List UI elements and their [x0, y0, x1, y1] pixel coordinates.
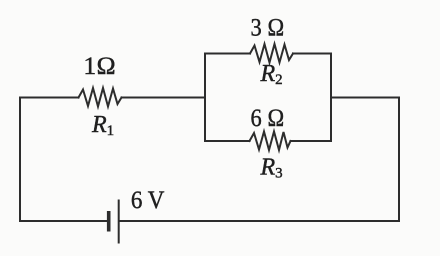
- resistor R3: [250, 132, 291, 151]
- wire top branch left (to R2): [205, 53, 250, 55]
- wire parallel block left vertical: [204, 54, 206, 142]
- resistor R2: [250, 44, 293, 63]
- wire bottom branch left (to R3): [205, 140, 250, 142]
- svg-text:3 Ω: 3 Ω: [251, 15, 285, 42]
- svg-text:R1: R1: [91, 112, 114, 139]
- svg-text:R3: R3: [260, 155, 283, 182]
- battery V1 negative plate (short thick): [107, 211, 111, 232]
- wire top-left segment (node A to R1): [20, 97, 79, 99]
- wire bottom branch right (R3 to block right): [291, 140, 332, 142]
- resistor R1: [79, 88, 122, 107]
- battery V1 positive plate (long thin): [118, 200, 120, 244]
- wire top branch right (R2 to block right): [293, 53, 331, 55]
- wire left edge: [19, 98, 21, 222]
- svg-text:6 Ω: 6 Ω: [251, 105, 285, 132]
- svg-text:1Ω: 1Ω: [83, 53, 116, 80]
- wire R1 to parallel block: [122, 97, 206, 99]
- wire bottom left segment (battery to corner): [20, 220, 107, 222]
- wire block to top-right corner: [331, 97, 399, 99]
- wire bottom right segment (corner to battery): [120, 220, 399, 222]
- svg-text:6 V: 6 V: [131, 187, 165, 214]
- wire right edge: [398, 98, 400, 222]
- wire parallel block right vertical: [330, 54, 332, 142]
